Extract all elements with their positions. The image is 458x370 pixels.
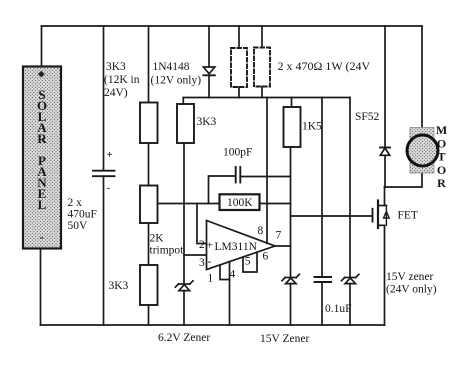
diode D1 1N4148 symbol — [204, 67, 215, 74]
wire R2 bottom lead — [148, 305, 150, 325]
svg-text:1N4148: 1N4148 — [153, 61, 190, 73]
resistor R5 3K3 reference body — [177, 104, 194, 143]
svg-text:(12K in: (12K in — [104, 74, 140, 86]
wire capacitor C3 bottom lead — [321, 282, 323, 325]
resistor R3 470R dashed body — [231, 48, 247, 87]
svg-text:O: O — [437, 136, 446, 150]
svg-text:6.2V Zener: 6.2V Zener — [158, 332, 210, 344]
wire trimpot to R2 — [148, 223, 150, 265]
diode D5 SF52 symbol — [380, 147, 390, 149]
wire zener D4 anode lead — [349, 284, 351, 325]
wire capacitor C2 right lead — [240, 176, 290, 178]
svg-text:24V): 24V) — [104, 87, 128, 99]
trimpot VR1 2K body — [140, 186, 158, 224]
wire diode D1 cathode lead — [208, 75, 210, 97]
wire zener D2 anode lead — [183, 291, 185, 325]
wire solar panel positive lead — [41, 26, 43, 67]
wire R6 right lead — [260, 203, 291, 205]
capacitor C2 100pF plates — [236, 167, 241, 183]
svg-text:SF52: SF52 — [355, 111, 380, 123]
svg-text:8: 8 — [258, 225, 264, 237]
wire output node vertical — [290, 147, 292, 278]
svg-text:trimpot: trimpot — [150, 245, 185, 257]
wire resistor R7 1K5 top lead — [291, 98, 293, 108]
resistor R1 3K3 (12K in 24V) body — [140, 103, 158, 144]
svg-text:2 x 470Ω 1W (24V: 2 x 470Ω 1W (24V — [278, 59, 371, 73]
svg-text:-: - — [107, 182, 111, 194]
wire capacitor C1 top lead — [103, 26, 105, 170]
wire capacitor C2 100pF left lead — [209, 176, 236, 204]
op-amp U1 LM311N triangle — [207, 221, 276, 270]
svg-text:2: 2 — [199, 239, 205, 251]
svg-text:50V: 50V — [68, 220, 89, 232]
capacitor C1 2x470uF plates — [93, 171, 115, 177]
transistor Q1 FET gate bar — [372, 209, 374, 222]
svg-text:15V zener: 15V zener — [386, 271, 434, 283]
svg-text:4: 4 — [230, 269, 236, 281]
wire diode D1 1N4148 anode lead — [208, 26, 210, 67]
op-amp U1 pin labels — [199, 225, 282, 285]
svg-text:3K3: 3K3 — [106, 61, 126, 73]
svg-text:T: T — [437, 150, 445, 164]
svg-text:(24V only): (24V only) — [386, 284, 437, 296]
svg-text:7: 7 — [276, 230, 282, 242]
svg-text:6: 6 — [263, 251, 269, 263]
svg-text:1: 1 — [208, 273, 214, 285]
wire SF52 cathode lead — [384, 26, 386, 148]
capacitor C3 0.1uF plates — [315, 277, 332, 282]
zener D4 15V (24V only) symbol — [345, 277, 356, 279]
wire pin4 ground line — [229, 262, 231, 325]
wire bottom ground rail — [41, 324, 385, 326]
wire resistor R1 top lead — [148, 26, 150, 103]
svg-text:2K: 2K — [150, 233, 165, 245]
svg-text:470uF: 470uF — [68, 209, 97, 221]
wire FET source — [378, 225, 385, 325]
wire zener D4 line — [349, 98, 351, 278]
wire capacitor C1 bottom lead — [103, 176, 105, 325]
wire motor top lead — [421, 26, 423, 128]
wire zener D3 anode lead — [290, 284, 292, 325]
wire trimpot wiper to noninverting node — [158, 203, 220, 205]
svg-text:15V Zener: 15V Zener — [260, 333, 309, 345]
resistor R6 100K body — [220, 194, 260, 210]
svg-text:M: M — [436, 123, 447, 137]
svg-text:100pF: 100pF — [223, 147, 252, 159]
resistor R7 1K5 body — [284, 107, 301, 147]
svg-text:-: - — [208, 256, 212, 268]
svg-text:R: R — [37, 131, 47, 146]
wire motor bottom lead — [385, 173, 423, 187]
svg-text:5: 5 — [245, 256, 251, 268]
svg-text:1K5: 1K5 — [302, 121, 322, 133]
motor M1 body — [407, 128, 438, 174]
wire R5 top stub — [182, 98, 184, 105]
wire R3 leads — [238, 26, 240, 48]
resistor R2 3K3 body — [140, 265, 158, 305]
wire FET gate line — [291, 215, 373, 217]
svg-text:2 x: 2 x — [68, 197, 83, 209]
wire pin2 drop — [197, 204, 207, 244]
svg-text:+: + — [207, 240, 214, 252]
wire SF52 anode lead — [384, 155, 386, 187]
wire second supply rail — [183, 97, 350, 99]
transistor Q1 body diode arrow — [385, 206, 387, 226]
svg-text:-: - — [39, 229, 43, 244]
svg-text:3K3: 3K3 — [109, 280, 129, 292]
wire pin7 output — [275, 245, 291, 247]
wire solar panel negative lead — [40, 249, 42, 326]
wire R4 leads — [261, 26, 263, 48]
svg-text:0.1uF: 0.1uF — [325, 303, 352, 315]
transistor Q1 FET body bar — [377, 201, 379, 229]
svg-text:R: R — [437, 176, 446, 190]
component text labels — [68, 59, 437, 345]
wire R5 to zener node — [183, 143, 185, 284]
solar panel labels — [37, 71, 47, 244]
zener D2 6.2V symbol — [179, 283, 190, 285]
wire pins 5-6 strap — [243, 252, 257, 272]
svg-text:O: O — [437, 163, 446, 177]
wire capacitor C3 top line — [321, 98, 323, 277]
svg-text:L: L — [38, 197, 47, 212]
svg-text:+: + — [107, 149, 113, 161]
wire FET drain — [384, 187, 386, 206]
svg-text:3: 3 — [199, 257, 205, 269]
wire R1 to trimpot — [148, 143, 150, 186]
svg-text:(12V only): (12V only) — [151, 75, 202, 87]
zener D3 15V gate clamp symbol — [285, 277, 296, 279]
wire top rail — [42, 25, 423, 27]
resistor R4 470R dashed body — [254, 48, 270, 87]
motor label — [436, 123, 447, 190]
solar panel body — [23, 67, 61, 249]
svg-text:FET: FET — [398, 210, 418, 222]
svg-text:100K: 100K — [227, 197, 253, 209]
wire pin3 inverting input — [184, 254, 207, 256]
wire pin8 supply line — [266, 98, 268, 244]
wire pin1 ground hook — [220, 265, 230, 280]
svg-text:3K3: 3K3 — [197, 116, 217, 128]
svg-text:LM311N: LM311N — [215, 241, 258, 253]
